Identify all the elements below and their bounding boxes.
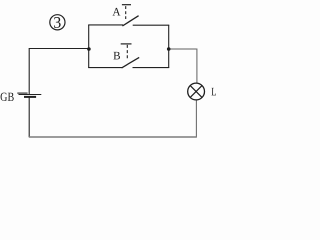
svg-text:A: A <box>112 6 121 18</box>
svg-text:GB: GB <box>0 90 14 104</box>
svg-text:3: 3 <box>53 15 61 32</box>
svg-text:L: L <box>211 86 216 98</box>
svg-text:B: B <box>113 50 121 62</box>
